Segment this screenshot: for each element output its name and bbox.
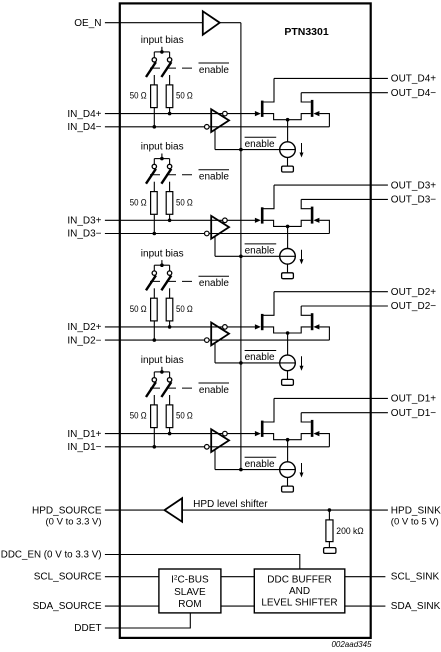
- svg-text:SLAVE: SLAVE: [174, 587, 206, 598]
- resistor 50-ohm a D1: [151, 405, 158, 428]
- svg-text:enable: enable: [199, 278, 229, 289]
- transistor Q3a gate arrow: [255, 218, 261, 223]
- bubble complementary output D3: [223, 218, 228, 223]
- pin label DDC_EN: [1, 549, 102, 560]
- value label 50 ohm b D3: [176, 197, 193, 208]
- resistor R1 200k: [326, 520, 333, 542]
- wire IN_D1- line: [105, 446, 330, 448]
- wire IN_D1+ line: [105, 433, 256, 435]
- svg-text:50 Ω: 50 Ω: [176, 91, 193, 102]
- wire common source to I4: [287, 120, 289, 142]
- svg-text:ROM: ROM: [178, 599, 201, 610]
- wire resistor a to IN_D3-: [153, 215, 155, 234]
- node bias junction D2: [160, 263, 164, 267]
- wire Q2a drain: [263, 292, 274, 316]
- wire SCL rom to ddc: [221, 576, 254, 578]
- wire bias stub D3: [161, 154, 163, 159]
- switch S3a contact: [152, 164, 156, 168]
- switch S4a lever: [146, 62, 156, 77]
- transistor Q1a gate arrow: [255, 431, 261, 436]
- pin label IN_D4+: [67, 109, 101, 120]
- value label 200 kilo-ohm: [336, 526, 363, 537]
- svg-text:LEVEL SHIFTER: LEVEL SHIFTER: [261, 598, 337, 609]
- buffer U2 differential receiver: [211, 323, 229, 346]
- svg-text:DDET: DDET: [74, 623, 101, 634]
- transistor Q2a gate arrow: [255, 324, 261, 329]
- value label 50 ohm a D3: [130, 197, 147, 208]
- label input bias (channel D1): [141, 355, 184, 366]
- transistor Q4a gate arrow: [255, 111, 261, 116]
- wire SDA_SINK stub: [371, 605, 386, 607]
- wire Q4a source: [263, 114, 287, 120]
- pin label OE_N: [74, 18, 101, 29]
- svg-text:002aad345: 002aad345: [331, 640, 372, 649]
- wire common source to I3: [287, 226, 289, 248]
- switch S1b lever: [161, 382, 171, 397]
- svg-text:SCL_SINK: SCL_SINK: [391, 572, 440, 583]
- wire switch stub b D4: [169, 52, 171, 58]
- svg-text:OUT_D2−: OUT_D2−: [391, 301, 436, 312]
- wire OUT_D3- rail: [301, 198, 370, 200]
- node common source D4: [286, 118, 290, 122]
- wire pulldown top: [328, 510, 330, 520]
- node resistor b junction D2: [168, 325, 172, 329]
- wire IN_D2- line: [105, 339, 330, 341]
- node bias junction D3: [160, 157, 164, 161]
- wire Q3b drain: [301, 199, 311, 208]
- wire enable to current source D2: [215, 362, 295, 364]
- wire switch stub b D1: [169, 372, 171, 378]
- pin label OUT_D1-: [391, 408, 436, 419]
- value label 50 ohm a D4: [130, 91, 147, 102]
- wire Q2b gate return: [319, 327, 329, 340]
- wire OE_N input: [105, 22, 202, 24]
- wire enable control dashed D3: [150, 174, 197, 176]
- svg-text:SDA_SINK: SDA_SINK: [391, 601, 441, 612]
- ground pad D3: [282, 273, 294, 279]
- bubble complementary output D2: [223, 325, 228, 330]
- pin label DDET: [74, 623, 101, 634]
- pin label OUT_D1+: [391, 394, 436, 405]
- label DDC BUFFER AND LEVEL SHIFTER: [261, 575, 337, 609]
- wire Q1a source: [263, 434, 287, 440]
- switch S2a lever: [146, 275, 156, 290]
- wire Q3b gate return: [319, 220, 329, 233]
- pin label SCL_SOURCE: [34, 572, 102, 583]
- buffer U5 output-enable: [203, 11, 220, 34]
- wire bias bar D4: [154, 51, 169, 53]
- label input bias (channel D2): [141, 248, 184, 259]
- figure reference 002aad345: [331, 640, 372, 649]
- wire Q3b source: [288, 220, 311, 226]
- svg-text:enable: enable: [199, 172, 229, 183]
- pin label SDA_SOURCE: [33, 601, 102, 612]
- wire resistor b to IN_D2+: [169, 321, 171, 327]
- pin label OUT_D3+: [391, 180, 436, 191]
- pin label HPD_SOURCE: [32, 505, 102, 527]
- label HPD level shifter: [193, 499, 268, 510]
- wire IN_D3+ line: [105, 219, 256, 221]
- resistor 50-ohm b D3: [166, 192, 173, 215]
- wire resistor a to IN_D1-: [153, 428, 155, 447]
- wire I4 to ground pad: [287, 157, 289, 166]
- svg-text:OUT_D2+: OUT_D2+: [391, 287, 436, 298]
- svg-text:50 Ω: 50 Ω: [176, 197, 193, 208]
- resistor 50-ohm a D3: [151, 192, 158, 215]
- wire OUT_D1+ stub: [371, 397, 388, 399]
- wire OUT_D3+ rail: [274, 184, 371, 186]
- current source I1: [280, 462, 296, 478]
- svg-text:IN_D1−: IN_D1−: [67, 442, 101, 453]
- svg-text:HPD_SOURCE: HPD_SOURCE: [32, 505, 102, 516]
- switch S3b contact: [167, 164, 171, 168]
- wire bias bar D2: [154, 264, 169, 266]
- svg-text:OUT_D1+: OUT_D1+: [391, 394, 436, 405]
- wire DDET: [105, 613, 190, 628]
- pin label OUT_D4+: [391, 74, 436, 85]
- wire SCL sink side: [345, 576, 371, 578]
- pin label IN_D2+: [67, 322, 101, 333]
- wire resistor a to IN_D4-: [153, 108, 155, 127]
- wire enable control dashed D4: [150, 67, 197, 69]
- wire resistor top b D2: [169, 288, 171, 298]
- switch S4b contact: [167, 58, 171, 62]
- label enable (current source D4): [245, 137, 277, 150]
- value label 50 ohm b D4: [176, 91, 193, 102]
- pin label IN_D3-: [67, 229, 101, 240]
- pin label IN_D3+: [67, 216, 101, 227]
- value label 50 ohm b D2: [176, 304, 193, 315]
- switch S1b contact: [167, 378, 171, 382]
- buffer U1 differential receiver: [211, 429, 229, 452]
- svg-text:IN_D4+: IN_D4+: [67, 109, 101, 120]
- svg-text:enable: enable: [245, 246, 275, 257]
- wire SDA source side: [105, 605, 159, 607]
- buffer U6 HPD level shifter: [165, 498, 183, 522]
- wire OUT_D4+ rail: [274, 77, 371, 79]
- node bias junction D1: [160, 370, 164, 374]
- node resistor a junction D2: [153, 338, 157, 342]
- svg-text:SCL_SOURCE: SCL_SOURCE: [34, 572, 102, 583]
- wire resistor b to IN_D1+: [169, 428, 171, 434]
- wire OUT_D4- rail: [301, 92, 370, 94]
- wire buffer enable tap D2: [214, 343, 216, 363]
- wire Q4b gate return: [319, 114, 329, 127]
- node common source D3: [286, 225, 290, 229]
- svg-text:HPD_SINK: HPD_SINK: [391, 505, 441, 516]
- node resistor a junction D3: [153, 232, 157, 236]
- wire SDA sink side: [345, 605, 371, 607]
- resistor 50-ohm b D2: [166, 298, 173, 321]
- wire resistor b to IN_D3+: [169, 215, 171, 221]
- svg-text:HPD level shifter: HPD level shifter: [193, 499, 268, 510]
- value label 50 ohm a D2: [130, 304, 147, 315]
- bubble inverting input D4: [205, 125, 210, 130]
- node enable bus junction D4: [239, 148, 243, 152]
- svg-text:(0 V to 3.3 V): (0 V to 3.3 V): [46, 517, 102, 528]
- switch S1a contact: [152, 378, 156, 382]
- label enable (switch control D3): [199, 170, 230, 183]
- wire Q2a source: [263, 327, 287, 333]
- svg-text:OUT_D3−: OUT_D3−: [391, 195, 436, 206]
- wire Q2b source: [288, 327, 311, 333]
- value label 50 ohm b D1: [176, 411, 193, 422]
- svg-text:PTN3301: PTN3301: [284, 26, 329, 38]
- transistor Q2b gate arrow: [313, 324, 319, 329]
- pin label SDA_SINK: [391, 601, 441, 612]
- node enable bus junction D2: [239, 361, 243, 365]
- svg-text:input bias: input bias: [141, 355, 184, 366]
- label enable (current source D2): [245, 351, 277, 364]
- svg-text:OE_N: OE_N: [74, 18, 101, 29]
- svg-text:50 Ω: 50 Ω: [130, 304, 147, 315]
- wire bias bar D3: [154, 158, 169, 160]
- transistor Q4b channel bar: [311, 100, 314, 117]
- wire I3 to ground pad: [287, 264, 289, 273]
- wire DDC_EN: [105, 555, 300, 570]
- wire buffer enable tap D3: [214, 236, 216, 256]
- IC boundary box PTN3301: [120, 3, 371, 638]
- pin label SCL_SINK: [391, 572, 440, 583]
- wire Q4b source: [288, 114, 311, 120]
- svg-text:IN_D4−: IN_D4−: [67, 122, 101, 133]
- wire switch stub b D3: [169, 159, 171, 165]
- wire OUT_D1- rail: [301, 412, 370, 414]
- pin label IN_D1+: [67, 429, 101, 440]
- wire OUT_D2+ rail: [274, 291, 371, 293]
- wire Q1b source: [288, 434, 311, 440]
- transistor Q3b channel bar: [311, 207, 314, 224]
- resistor 50-ohm b D1: [166, 405, 173, 428]
- wire enable to current source D4: [215, 149, 295, 151]
- node enable bus junction D1: [239, 468, 243, 472]
- bubble complementary output D1: [223, 431, 228, 436]
- svg-text:DDC BUFFER: DDC BUFFER: [267, 575, 331, 586]
- node common source D2: [286, 331, 290, 335]
- wire OUT_D2+ stub: [371, 291, 388, 293]
- switch S3b lever: [161, 169, 171, 184]
- ground pad HPD: [324, 548, 336, 554]
- wire resistor top a D3: [153, 182, 155, 192]
- current source I4: [280, 142, 296, 158]
- ground pad D1: [282, 486, 294, 492]
- node HPD pulldown junction: [328, 508, 332, 512]
- wire OUT_D4- stub: [371, 92, 388, 94]
- svg-text:input bias: input bias: [141, 35, 184, 46]
- wire HPD source side: [105, 509, 165, 511]
- wire IN_D4- line: [105, 126, 330, 128]
- wire Q1b drain: [301, 413, 311, 422]
- current source I2: [280, 355, 296, 371]
- wire Q1b gate return: [319, 434, 329, 447]
- transistor Q3b gate arrow: [313, 218, 319, 223]
- svg-text:I2C-BUS: I2C-BUS: [171, 574, 209, 585]
- wire resistor top a D2: [153, 288, 155, 298]
- svg-text:enable: enable: [199, 65, 229, 76]
- wire OUT_D2- stub: [371, 305, 388, 307]
- label enable (switch control D4): [199, 63, 230, 76]
- resistor 50-ohm a D4: [151, 85, 158, 108]
- node resistor a junction D1: [153, 445, 157, 449]
- svg-text:IN_D3−: IN_D3−: [67, 229, 101, 240]
- svg-text:50 Ω: 50 Ω: [130, 91, 147, 102]
- label input bias (channel D3): [141, 142, 184, 153]
- wire Q4a drain: [263, 78, 274, 102]
- switch S2b lever: [161, 275, 171, 290]
- svg-text:OUT_D1−: OUT_D1−: [391, 408, 436, 419]
- ground pad D2: [282, 379, 294, 385]
- pin label OUT_D2-: [391, 301, 436, 312]
- label enable (current source D3): [245, 244, 277, 257]
- pin label HPD_SINK: [391, 505, 441, 527]
- svg-text:50 Ω: 50 Ω: [176, 411, 193, 422]
- svg-text:(0 V to 5 V): (0 V to 5 V): [391, 517, 439, 528]
- value label 50 ohm a D1: [130, 411, 147, 422]
- arrow current direction I3: [300, 250, 304, 265]
- buffer U3 differential receiver: [211, 216, 229, 239]
- wire resistor top a D4: [153, 75, 155, 85]
- svg-text:enable: enable: [199, 385, 229, 396]
- wire common source to I1: [287, 440, 289, 462]
- wire SCL source side: [105, 576, 159, 578]
- label input bias (channel D4): [141, 35, 184, 46]
- pin label IN_D2-: [67, 335, 101, 346]
- wire resistor top b D1: [169, 395, 171, 405]
- svg-text:IN_D3+: IN_D3+: [67, 216, 101, 227]
- transistor Q3a channel bar: [261, 207, 264, 223]
- wire I1 to ground pad: [287, 477, 289, 486]
- arrow current direction I1: [300, 463, 304, 478]
- wire OUT_D1+ rail: [274, 397, 371, 399]
- arrow current direction I2: [300, 356, 304, 371]
- arrow current direction I4: [300, 143, 304, 158]
- wire resistor top a D1: [153, 395, 155, 405]
- transistor Q2b channel bar: [311, 313, 314, 330]
- wire HPD sink side: [182, 509, 370, 511]
- switch S4b lever: [161, 62, 171, 77]
- wire switch stub a D4: [153, 52, 155, 58]
- wire I2 to ground pad: [287, 371, 289, 380]
- block U7 I2C-bus slave ROM: [159, 569, 221, 613]
- node common source D1: [286, 438, 290, 442]
- bubble inverting input D3: [205, 231, 210, 236]
- transistor Q4b gate arrow: [313, 111, 319, 116]
- wire enable bus horizontal: [220, 22, 241, 24]
- switch S2b contact: [167, 271, 171, 275]
- svg-text:IN_D1+: IN_D1+: [67, 429, 101, 440]
- switch S3a lever: [146, 169, 156, 184]
- pin label IN_D1-: [67, 442, 101, 453]
- wire enable control dashed D2: [150, 280, 197, 282]
- transistor Q1a channel bar: [261, 421, 264, 437]
- wire enable to current source D1: [215, 469, 295, 471]
- node resistor a junction D4: [153, 125, 157, 129]
- pin label IN_D4-: [67, 122, 101, 133]
- wire common source to I2: [287, 333, 289, 355]
- svg-text:50 Ω: 50 Ω: [130, 197, 147, 208]
- wire resistor a to IN_D2-: [153, 321, 155, 340]
- bubble complementary output D4: [223, 111, 228, 116]
- wire OUT_D3+ stub: [371, 184, 388, 186]
- node bias junction D4: [160, 50, 164, 54]
- svg-text:200 kΩ: 200 kΩ: [336, 526, 363, 537]
- svg-text:input bias: input bias: [141, 248, 184, 259]
- ground pad D4: [282, 166, 294, 172]
- bubble inverting input D1: [205, 445, 210, 450]
- svg-text:IN_D2+: IN_D2+: [67, 322, 101, 333]
- wire bias stub D4: [161, 47, 163, 52]
- resistor 50-ohm b D4: [166, 85, 173, 108]
- wire IN_D3- line: [105, 233, 330, 235]
- wire SDA rom to ddc: [221, 605, 254, 607]
- label enable (current source D1): [245, 457, 277, 470]
- svg-text:IN_D2−: IN_D2−: [67, 335, 101, 346]
- wire Q2b drain: [301, 306, 311, 315]
- wire switch stub b D2: [169, 265, 171, 271]
- transistor Q1b channel bar: [311, 420, 314, 437]
- wire buffer enable tap D1: [214, 450, 216, 470]
- transistor Q4a channel bar: [261, 101, 264, 117]
- wire switch stub a D1: [153, 372, 155, 378]
- wire OUT_D4+ stub: [371, 77, 388, 79]
- label enable (switch control D2): [199, 276, 230, 289]
- wire OUT_D2- rail: [301, 305, 370, 307]
- pin label OUT_D4-: [391, 88, 436, 99]
- svg-text:DDC_EN (0 V to 3.3 V): DDC_EN (0 V to 3.3 V): [1, 549, 102, 560]
- wire enable control dashed D1: [150, 387, 197, 389]
- bubble inverting input D2: [205, 338, 210, 343]
- wire SCL_SINK stub: [371, 576, 386, 578]
- wire Q1a drain: [263, 398, 274, 422]
- svg-text:enable: enable: [245, 352, 275, 363]
- label I2C-BUS SLAVE ROM: [171, 574, 209, 610]
- wire IN_D2+ line: [105, 326, 256, 328]
- current source I3: [280, 248, 296, 264]
- svg-text:50 Ω: 50 Ω: [130, 411, 147, 422]
- wire resistor b to IN_D4+: [169, 108, 171, 114]
- resistor 50-ohm a D2: [151, 298, 158, 321]
- wire Q4b drain: [301, 93, 311, 102]
- wire pulldown bottom: [328, 542, 330, 548]
- transistor Q2a channel bar: [261, 314, 264, 330]
- svg-text:input bias: input bias: [141, 142, 184, 153]
- node resistor b junction D1: [168, 432, 172, 436]
- wire switch stub a D3: [153, 159, 155, 165]
- wire OUT_D3- stub: [371, 198, 388, 200]
- label enable (switch control D1): [199, 383, 230, 396]
- wire buffer enable tap D4: [214, 130, 216, 150]
- wire enable to current source D3: [215, 255, 295, 257]
- wire resistor top b D3: [169, 182, 171, 192]
- svg-text:OUT_D3+: OUT_D3+: [391, 180, 436, 191]
- switch S1a lever: [146, 382, 156, 397]
- wire Q3a drain: [263, 185, 274, 209]
- wire resistor top b D4: [169, 75, 171, 85]
- svg-text:OUT_D4+: OUT_D4+: [391, 74, 436, 85]
- node resistor b junction D3: [168, 219, 172, 223]
- wire bias bar D1: [154, 371, 169, 373]
- wire bias stub D2: [161, 260, 163, 265]
- pin label OUT_D3-: [391, 195, 436, 206]
- node resistor b junction D4: [168, 112, 172, 116]
- svg-text:SDA_SOURCE: SDA_SOURCE: [33, 601, 102, 612]
- wire HPD_SINK stub: [371, 509, 388, 511]
- wire OUT_D1- stub: [371, 412, 388, 414]
- transistor Q1b gate arrow: [313, 431, 319, 436]
- svg-text:AND: AND: [289, 586, 310, 597]
- switch S4a contact: [152, 58, 156, 62]
- switch S2a contact: [152, 271, 156, 275]
